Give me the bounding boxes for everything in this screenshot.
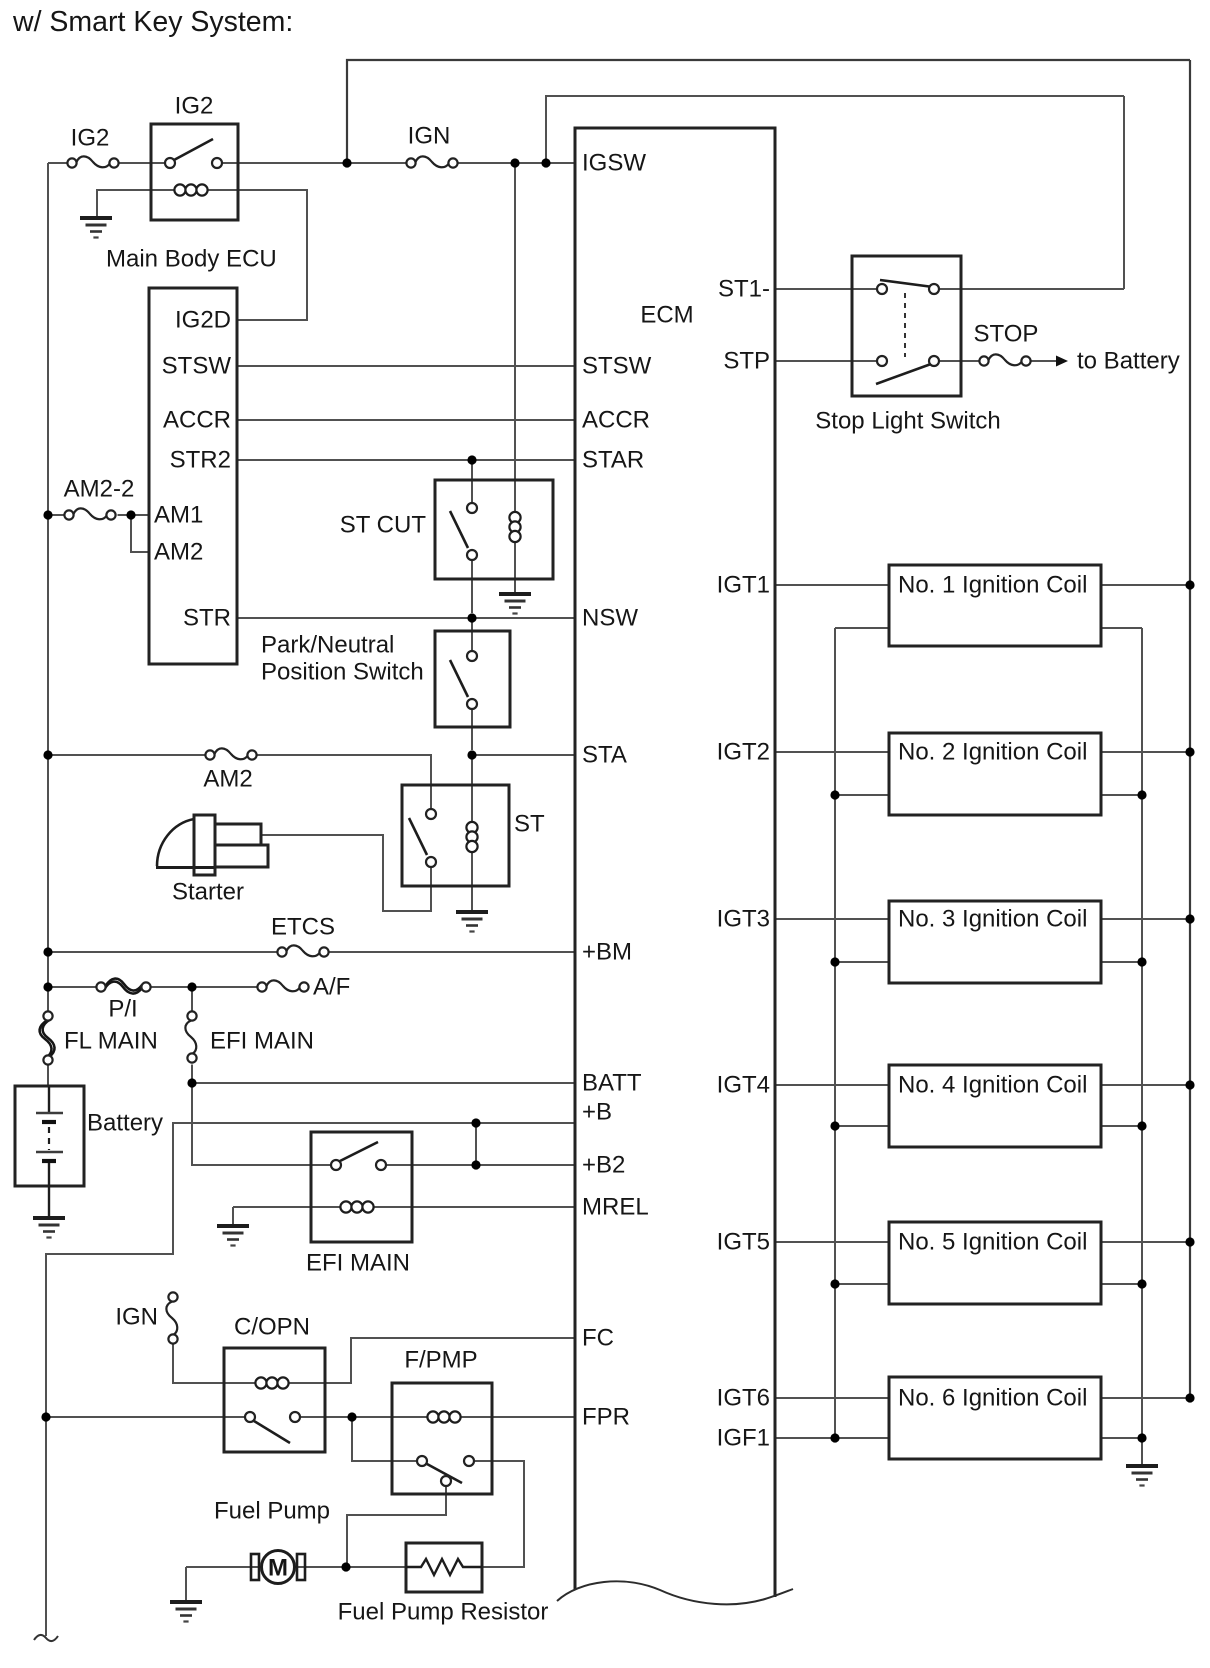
svg-text:Fuel Pump Resistor: Fuel Pump Resistor <box>338 1599 549 1626</box>
svg-text:C/OPN: C/OPN <box>234 1314 310 1341</box>
node ground bus tap coil6 <box>1137 1433 1146 1442</box>
svg-text:AM2: AM2 <box>203 766 252 793</box>
node ground bus tap coil4 <box>1137 1121 1146 1130</box>
node fuel pump junction <box>341 1562 350 1571</box>
svg-text:IGN: IGN <box>115 1304 158 1331</box>
wire BATT line <box>192 1082 575 1084</box>
svg-text:EFI MAIN: EFI MAIN <box>306 1250 410 1277</box>
svg-text:STA: STA <box>582 742 627 769</box>
svg-text:FPR: FPR <box>582 1404 630 1431</box>
node STR/NSW junction <box>467 613 476 622</box>
ground at fuel pump <box>170 1602 202 1622</box>
svg-text:IG2D: IG2D <box>175 307 231 334</box>
wire No.3 coil ground-side leads <box>835 961 1142 963</box>
wire STAR/STR2 line <box>239 459 576 461</box>
wire No.1 coil ground-side leads <box>835 627 1142 629</box>
wire FPR line <box>46 1416 575 1418</box>
fuse IGN (lower) <box>166 1292 177 1343</box>
wire STA line to ECM <box>472 754 575 756</box>
wire STSW line <box>239 365 576 367</box>
wire AM2 line to ST relay contact <box>48 755 431 809</box>
label park/neutral position switch <box>261 632 424 686</box>
relay F/PMP box <box>392 1383 492 1494</box>
wire IGSW-to-ST1 link y=96 <box>546 96 1124 163</box>
wire EFI MAIN fuse drop x=192 <box>192 987 332 1165</box>
fuse AM2-2 <box>64 508 115 519</box>
svg-text:No. 4 Ignition Coil: No. 4 Ignition Coil <box>898 1072 1087 1099</box>
wire IGT2 line <box>775 751 1190 753</box>
wire IGT1 line <box>775 584 1190 586</box>
node IGN-coil bus tap <box>342 158 351 167</box>
node FPR left junction <box>41 1412 50 1421</box>
relay IG2 coil <box>174 184 207 195</box>
svg-text:AM2-2: AM2-2 <box>64 476 135 503</box>
wire F/PMP contact feed <box>352 1417 417 1461</box>
relay C/OPN coil <box>255 1377 288 1388</box>
wire AM2-2 line <box>48 514 149 516</box>
fuel pump motor <box>251 1551 305 1584</box>
wire F/PMP NC contact to resistor <box>474 1461 524 1567</box>
wire igniter bus x=835 <box>834 628 836 1438</box>
wire IGT5 line <box>775 1241 1190 1243</box>
svg-text:IGT1: IGT1 <box>717 572 770 599</box>
ground at ST CUT coil <box>499 594 531 614</box>
svg-text:Battery: Battery <box>87 1110 163 1137</box>
svg-text:IGF1: IGF1 <box>717 1425 770 1452</box>
wire MREL line <box>233 1206 575 1208</box>
wire +B line and drop to bottom bus <box>46 1123 575 1636</box>
node AM2-2 tap on bus A <box>43 510 52 519</box>
ECM box <box>575 128 775 1597</box>
node STR2/STAR junction <box>467 455 476 464</box>
svg-text:P/I: P/I <box>108 996 137 1023</box>
svg-text:Park/Neutral: Park/Neutral <box>261 632 394 659</box>
svg-text:No. 6 Ignition Coil: No. 6 Ignition Coil <box>898 1385 1087 1412</box>
svg-text:No. 3 Ignition Coil: No. 3 Ignition Coil <box>898 906 1087 933</box>
node P/I tap on bus A <box>43 982 52 991</box>
fuse EFI MAIN <box>185 1011 196 1062</box>
wire top feed to ignition coil bus y=60 <box>347 60 1190 163</box>
svg-text:STSW: STSW <box>162 353 232 380</box>
node ground bus tap coil5 <box>1137 1279 1146 1288</box>
svg-text:IGN: IGN <box>408 123 451 150</box>
wire F/PMP common to fuel pump <box>347 1486 446 1567</box>
starter motor symbol <box>156 815 268 875</box>
svg-text:A/F: A/F <box>313 974 350 1001</box>
wire P/I - A/F line <box>48 986 258 988</box>
wire starter to ST contact <box>261 835 431 911</box>
svg-text:ST CUT: ST CUT <box>340 512 427 539</box>
ignition coil No.1 box <box>889 565 1101 646</box>
svg-text:IGT5: IGT5 <box>717 1229 770 1256</box>
svg-text:ETCS: ETCS <box>271 914 335 941</box>
wire fuel pump ground lead <box>185 1567 187 1601</box>
stop light switch mechanical link (dashed) <box>904 293 906 357</box>
wire ST1- line <box>775 288 1124 290</box>
node IGT1 bus tap <box>1185 580 1194 589</box>
node IGT6 bus tap <box>1185 1393 1194 1402</box>
break squiggle at bottom of left bus <box>34 1635 58 1641</box>
svg-text:BATT: BATT <box>582 1070 642 1097</box>
node igniter bus tap coil3 <box>830 957 839 966</box>
wire IG2D link <box>208 190 308 320</box>
wire park/neutral switch chain x=472 <box>471 618 473 750</box>
svg-text:AM2: AM2 <box>154 539 203 566</box>
svg-text:M: M <box>268 1555 288 1582</box>
svg-text:ACCR: ACCR <box>163 407 231 434</box>
svg-text:MREL: MREL <box>582 1194 649 1221</box>
node igniter bus tap coil2 <box>830 790 839 799</box>
node BATT tap <box>187 1078 196 1087</box>
wire +B2 line <box>386 1164 576 1166</box>
relay EFI MAIN box <box>311 1132 412 1242</box>
ground at ST coil <box>456 912 488 932</box>
fuse STOP <box>979 354 1030 365</box>
svg-text:EFI MAIN: EFI MAIN <box>210 1028 314 1055</box>
stop light switch upper contacts <box>877 280 939 294</box>
arrow to battery <box>1056 356 1068 367</box>
relay ST coil <box>466 822 477 852</box>
ignition coil No.4 box <box>889 1065 1101 1147</box>
svg-text:+B: +B <box>582 1099 612 1126</box>
svg-text:IGT4: IGT4 <box>717 1072 770 1099</box>
svg-text:ST: ST <box>514 811 545 838</box>
relay C/OPN box <box>224 1348 325 1452</box>
svg-text:Position Switch: Position Switch <box>261 659 424 686</box>
wire +B/+B2 jumper x=476 <box>475 1123 477 1165</box>
wire No.5 coil ground-side leads <box>835 1283 1142 1285</box>
wire left power bus A x=48 <box>47 163 49 1087</box>
wire IGT3 line <box>775 918 1190 920</box>
wire No.6 coil ground lead <box>1101 1437 1142 1439</box>
svg-text:Main Body ECU: Main Body ECU <box>106 246 277 273</box>
svg-text:to Battery: to Battery <box>1077 348 1180 375</box>
svg-text:FL MAIN: FL MAIN <box>64 1028 158 1055</box>
relay ST CUT switch <box>450 503 477 560</box>
node ground bus tap coil3 <box>1137 957 1146 966</box>
svg-text:Fuel Pump: Fuel Pump <box>214 1498 330 1525</box>
svg-text:ST1-: ST1- <box>718 276 770 303</box>
wire IG2 relay coil ground lead <box>97 190 175 217</box>
node AM2 tap on bus A <box>43 750 52 759</box>
wire STP line <box>775 360 1056 362</box>
node +B junction <box>471 1118 480 1127</box>
wire IGF1 line <box>775 1437 889 1439</box>
wire No.2 coil ground-side leads <box>835 794 1142 796</box>
svg-text:STP: STP <box>723 348 770 375</box>
wire NSW/STR line <box>239 617 576 619</box>
relay ST CUT box <box>435 480 553 579</box>
relay ST CUT coil <box>509 512 520 542</box>
svg-text:STAR: STAR <box>582 447 644 474</box>
svg-text:STOP: STOP <box>974 321 1039 348</box>
wire ignition coil supply bus x=1190 <box>1189 60 1191 1398</box>
relay EFI MAIN switch <box>331 1142 386 1170</box>
svg-text:STSW: STSW <box>582 353 652 380</box>
wire IGT6 line <box>775 1397 1190 1399</box>
ground at ignition coils <box>1126 1466 1158 1486</box>
svg-text:No. 2 Ignition Coil: No. 2 Ignition Coil <box>898 739 1087 766</box>
svg-text:STR2: STR2 <box>170 447 231 474</box>
fuse ETCS <box>277 945 328 956</box>
svg-text:+BM: +BM <box>582 939 632 966</box>
svg-text:FC: FC <box>582 1325 614 1352</box>
node IGT4 bus tap <box>1185 1080 1194 1089</box>
fuel pump resistor element <box>406 1559 482 1575</box>
svg-text:IGSW: IGSW <box>582 150 646 177</box>
svg-text:No. 5 Ignition Coil: No. 5 Ignition Coil <box>898 1229 1087 1256</box>
ECM bottom break wave <box>557 1581 793 1604</box>
svg-text:IGT3: IGT3 <box>717 906 770 933</box>
relay EFI MAIN coil <box>340 1201 373 1212</box>
wire coil ground bus x=1142 <box>1141 628 1143 1465</box>
relay IG2 switch <box>165 139 222 168</box>
park/neutral position switch box <box>435 631 510 727</box>
svg-text:ECM: ECM <box>640 302 693 329</box>
node +B2 junction <box>471 1160 480 1169</box>
ground at IG2 relay coil <box>80 218 112 238</box>
svg-text:IGT6: IGT6 <box>717 1385 770 1412</box>
wire fuel pump line <box>186 1566 406 1568</box>
fuel pump resistor box <box>406 1543 482 1592</box>
relay ST switch <box>409 809 436 867</box>
svg-text:IG2: IG2 <box>71 125 110 152</box>
ignition coil No.5 box <box>889 1222 1101 1304</box>
node IGSW/ST1 tap <box>541 158 550 167</box>
wire ST relay coil chain x=472 <box>471 755 473 911</box>
fusible link P/I <box>96 979 150 994</box>
fusible link FL MAIN <box>40 1011 55 1064</box>
stop light switch box <box>852 256 961 396</box>
relay IG2 (Main Body ECU) box <box>151 124 238 220</box>
svg-text:ACCR: ACCR <box>582 407 650 434</box>
svg-text:No. 1 Ignition Coil: No. 1 Ignition Coil <box>898 572 1087 599</box>
svg-text:Stop Light Switch: Stop Light Switch <box>815 408 1000 435</box>
node EFI MAIN fuse tap <box>187 982 196 991</box>
node ground bus tap coil2 <box>1137 790 1146 799</box>
fuse A/F <box>257 980 308 991</box>
svg-text:STR: STR <box>183 605 231 632</box>
svg-text:Starter: Starter <box>172 879 244 906</box>
svg-text:+B2: +B2 <box>582 1152 625 1179</box>
wire IGT4 line <box>775 1084 1190 1086</box>
stop light switch lower contacts <box>876 356 939 384</box>
node IGT5 bus tap <box>1185 1237 1194 1246</box>
node FPR/F PMP junction <box>347 1412 356 1421</box>
node AM1/AM2 junction <box>126 510 135 519</box>
relay C/OPN switch <box>245 1412 300 1443</box>
Main Body ECU box <box>149 288 237 664</box>
relay F/PMP changeover switch <box>417 1456 474 1486</box>
svg-text:IG2: IG2 <box>175 93 214 120</box>
node IGT3 bus tap <box>1185 914 1194 923</box>
wire IG2/IGN feed line y=163 <box>48 162 575 164</box>
svg-text:AM1: AM1 <box>154 502 203 529</box>
ignition coil No.6 box <box>889 1377 1101 1459</box>
wire ST CUT switch chain x=472 <box>471 460 473 613</box>
node ST CUT coil tap <box>510 158 519 167</box>
fuse IG2 <box>67 156 118 167</box>
node STA junction <box>467 750 476 759</box>
fuse AM2 <box>205 748 256 759</box>
battery symbol <box>15 1086 84 1217</box>
node IGF1 junction <box>830 1433 839 1442</box>
wire IGN fuse to C/OPN coil <box>173 1343 261 1384</box>
svg-text:w/ Smart Key System:: w/ Smart Key System: <box>12 6 293 38</box>
ground at EFI MAIN coil <box>217 1226 249 1246</box>
node IGT2 bus tap <box>1185 747 1194 756</box>
relay ST box <box>402 785 509 886</box>
wire No.4 coil ground-side leads <box>835 1125 1142 1127</box>
ignition coil No.2 box <box>889 733 1101 815</box>
svg-text:IGT2: IGT2 <box>717 739 770 766</box>
ground at battery <box>33 1218 65 1238</box>
wire ST1 vertical x=1124 <box>1123 96 1125 289</box>
wire FC line <box>283 1338 575 1383</box>
ignition coil No.3 box <box>889 901 1101 983</box>
wire ST CUT coil feed x=515 <box>514 163 516 594</box>
wire EFI MAIN relay coil ground lead <box>232 1207 234 1225</box>
node igniter bus tap coil4 <box>830 1121 839 1130</box>
svg-text:F/PMP: F/PMP <box>404 1347 477 1374</box>
node +BM tap on bus A <box>43 947 52 956</box>
wire +BM/ETCS line <box>48 951 575 953</box>
wire AM1/AM2 jumper <box>131 515 149 552</box>
wire ACCR line <box>239 419 576 421</box>
node igniter bus tap coil5 <box>830 1279 839 1288</box>
relay F/PMP coil <box>427 1411 460 1422</box>
svg-text:NSW: NSW <box>582 605 638 632</box>
park/neutral position switch contacts <box>450 651 477 709</box>
fuse IGN <box>406 156 457 167</box>
